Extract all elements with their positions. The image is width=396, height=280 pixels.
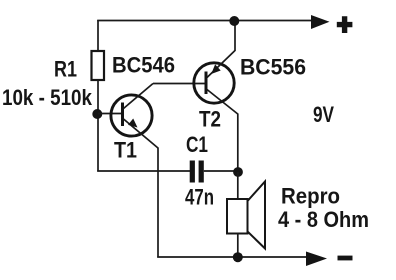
resistor R1 [92, 51, 105, 80]
svg-text:47n: 47n [185, 185, 214, 210]
svg-text:9V: 9V [313, 102, 334, 127]
wire top positive rail [97, 20, 312, 22]
svg-text:BC546: BC546 [112, 53, 175, 78]
svg-text:Repro: Repro [281, 184, 340, 209]
wire junction down to speaker [237, 172, 239, 200]
wire feedback horizontal to C1 [97, 170, 190, 172]
svg-text:BC556: BC556 [240, 55, 306, 80]
wire T2 collector down to junction [237, 114, 239, 173]
capacitor C1 [190, 161, 204, 183]
svg-text:C1: C1 [186, 132, 208, 157]
wire T1 collector to T2 base [153, 83, 206, 85]
speaker Repro (cone) [248, 182, 266, 249]
wire top-left vertical drop to R1 [97, 20, 99, 52]
transistor T1 (BC546 NPN) [111, 84, 158, 149]
wire T1 emitter down to bottom rail [157, 148, 159, 258]
wire T2 emitter up to rail [234, 20, 236, 51]
node + terminal arrow [311, 15, 330, 29]
wire speaker down to bottom rail [237, 234, 239, 258]
label + (plus) [337, 16, 353, 33]
node - terminal arrow [306, 252, 327, 267]
svg-text:T1: T1 [114, 138, 137, 163]
node C1 / T2 collector / speaker junction [233, 167, 243, 177]
wire bottom negative rail [157, 256, 306, 258]
node base junction dot [92, 109, 102, 119]
wire T1 base lead [98, 113, 122, 115]
transistor T2 (BC556 PNP) [194, 51, 238, 115]
node top rail junction [229, 16, 239, 26]
svg-text:4 - 8 Ohm: 4 - 8 Ohm [278, 207, 369, 232]
speaker Repro (driver rectangle) [227, 199, 248, 234]
wire C1 right plate to junction [204, 170, 238, 172]
wire R1 bottom to feedback corner [97, 80, 99, 172]
svg-text:R1: R1 [54, 57, 77, 82]
svg-text:T2: T2 [199, 107, 221, 132]
label - (minus) [338, 256, 353, 261]
svg-text:10k - 510k: 10k - 510k [2, 85, 93, 110]
node bottom rail junction [233, 252, 243, 262]
